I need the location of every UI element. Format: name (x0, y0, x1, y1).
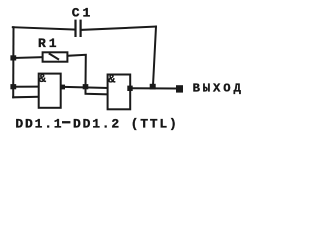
svg-text:&: & (39, 72, 47, 86)
wire gate1 upper input (13, 86, 38, 88)
wire right vertical down (153, 27, 156, 86)
node feedback junction on output wire (150, 84, 156, 90)
wire C1 to top-right corner (81, 27, 157, 30)
capacitor C1 (72, 5, 93, 37)
gate DD1.2 (108, 73, 131, 110)
wire branch to gate2 lower input (86, 87, 108, 94)
node gate2 output pin (127, 86, 132, 91)
wire gate1 output to gate2 input (65, 87, 108, 88)
wire gate2 output to terminal (133, 87, 176, 89)
wire R1 right lead and drop (68, 55, 86, 87)
svg-text:ВЫХОД: ВЫХОД (193, 81, 243, 95)
wire R1 left lead (14, 56, 43, 59)
svg-text:C1: C1 (72, 5, 93, 20)
node gate1 output pin (60, 85, 65, 90)
resistor R1 (38, 36, 67, 62)
svg-text:R1: R1 (38, 36, 60, 51)
node gate1 input junction (10, 84, 16, 89)
node R1 drop junction (83, 84, 89, 89)
svg-text:DD1.1 DD1.2 (TTL): DD1.1 DD1.2 (TTL) (15, 117, 178, 132)
svg-text:&: & (108, 73, 116, 87)
gate DD1.1 (39, 72, 61, 108)
wire gate1 lower input (13, 96, 38, 99)
dash in caption (62, 121, 70, 123)
output terminal square (176, 85, 183, 92)
wire left vertical feedback (12, 27, 14, 97)
node R1 left tap junction (10, 55, 16, 60)
wire top-left to C1 (13, 27, 76, 29)
